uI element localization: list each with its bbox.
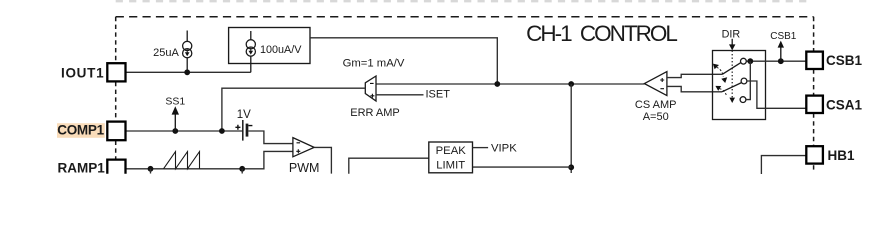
svg-text:1V: 1V [237, 109, 251, 121]
switch SW1 blade [722, 63, 741, 75]
box 100uA/V [229, 28, 310, 64]
wire ISET stub [376, 94, 424, 96]
switch SW1 motion arrows [713, 64, 719, 70]
svg-text:PEAK: PEAK [436, 145, 467, 157]
svg-text:SS1: SS1 [165, 95, 185, 107]
switch contact C2 [741, 78, 747, 84]
svg-text:VIPK: VIPK [491, 143, 517, 155]
op-amp U3 CS AMP (pointing left) [644, 72, 667, 96]
pin RAMP1 [107, 160, 125, 174]
wire CS AMP minus input to switch [667, 86, 722, 91]
dashed border left vertical [115, 17, 117, 159]
node junction CSB1 arrow [778, 58, 784, 64]
svg-text:LIMIT: LIMIT [436, 159, 465, 171]
wire main bus ERR AMP input to CS AMP output [376, 83, 644, 85]
pin CSA1 [806, 96, 823, 113]
wire vertical 571 down to peak-limit bus [570, 84, 572, 173]
wire PEAK LIMIT left input [349, 158, 429, 174]
svg-text:CSB1: CSB1 [770, 31, 797, 42]
arrow DIR into box [731, 39, 733, 46]
node junction at 497 [494, 81, 500, 87]
svg-text:CSB1: CSB1 [826, 53, 863, 68]
svg-text:CH-1 CONTROL: CH-1 CONTROL [526, 21, 677, 46]
svg-text:RAMP1: RAMP1 [58, 160, 106, 175]
svg-text:100uA/V: 100uA/V [260, 44, 302, 56]
node junction at peak bus [568, 164, 574, 170]
wire COMP1 to battery [126, 130, 243, 132]
svg-text:IOUT1: IOUT1 [61, 65, 104, 80]
current source I2 100uA/V [246, 31, 255, 72]
node junction SS1 [172, 128, 178, 134]
switch contact C3 [740, 97, 746, 103]
switch SW2 motion arrows [715, 86, 721, 91]
wire C1 to CSB1 pin [746, 60, 806, 62]
wire IOUT1 to 100uA/V source [126, 71, 251, 73]
wire PEAK LIMIT bottom to 571 [473, 166, 572, 168]
wire VIPK stub [473, 147, 489, 149]
wire RAMP1 [126, 151, 293, 168]
node junction on IOUT1 wire [184, 69, 190, 75]
dashed border right vertical (pin column) [813, 17, 815, 170]
svg-text:COMP1: COMP1 [57, 123, 104, 138]
svg-text:25uA: 25uA [153, 47, 179, 59]
switch contact C1 [741, 58, 747, 64]
current source I1 25uA [183, 31, 192, 71]
svg-text:PWM: PWM [289, 161, 320, 175]
wire PWM output down [314, 147, 331, 173]
pin IOUT1 [107, 63, 125, 81]
svg-text:HB1: HB1 [828, 148, 855, 163]
svg-text:CSA1: CSA1 [826, 97, 863, 112]
wire HB1 stub [761, 156, 806, 174]
node junction ramp 2 [239, 166, 245, 172]
node junction at 571 [568, 81, 574, 87]
wire battery to PWM minus input [248, 131, 293, 144]
switch SW2 blade [722, 83, 742, 92]
arrow CSB1 internal signal [780, 47, 782, 62]
wire 100uA/V box output to main node [310, 38, 497, 84]
node junction ERR out [219, 128, 225, 134]
arrow SS1 [174, 114, 176, 132]
box PEAK LIMIT [429, 142, 473, 173]
dashed border top edge of CH-1 CONTROL block [116, 16, 814, 18]
wire C1 node down to C3 [746, 61, 750, 99]
dotted DIR control line [731, 51, 733, 98]
svg-text:ISET: ISET [426, 88, 451, 100]
pin CSB1 [806, 52, 823, 69]
svg-text:CS AMP: CS AMP [635, 99, 677, 111]
pin COMP1 (highlighted label) [57, 123, 105, 138]
svg-text:ERR AMP: ERR AMP [350, 107, 400, 119]
battery V1 1V [242, 120, 244, 141]
node junction ramp 1 [148, 166, 154, 172]
svg-text:DIR: DIR [722, 29, 741, 41]
sawtooth waveform symbol [164, 152, 200, 169]
pin HB1 [806, 146, 823, 163]
wire ERR AMP output to COMP1 node [222, 88, 365, 131]
node junction after C1 [747, 58, 753, 64]
wire C2 to CSA1 pin [747, 81, 806, 108]
top gray dashed line (bottom of block above) [116, 0, 812, 2]
comparator U2 PWM [293, 138, 314, 157]
svg-text:A=50: A=50 [643, 111, 669, 123]
op-amp U1 ERR AMP (gm amp pointing left) [365, 76, 376, 101]
svg-text:Gm=1 mA/V: Gm=1 mA/V [343, 58, 405, 70]
box DIR switch network [713, 51, 766, 120]
wire CS AMP plus input to switch [667, 74, 722, 77]
